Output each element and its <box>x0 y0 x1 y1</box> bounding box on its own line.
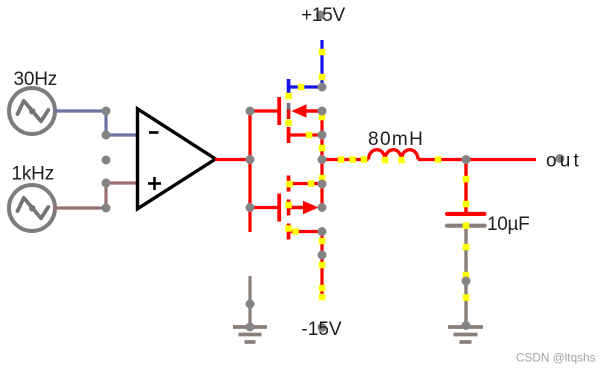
AC source V2 1kHz <box>9 185 55 231</box>
wire 1kHz source to op-amp noninverting input <box>55 183 138 208</box>
node dot (322,159.5) <box>318 155 327 164</box>
node dot out post <box>556 154 565 163</box>
node dot (466,159.5) <box>462 155 471 164</box>
node dot +15V post <box>316 11 325 20</box>
transistor Q2 n-channel MOSFET <box>277 176 322 240</box>
node dot (250,111) <box>246 107 255 116</box>
wire gate lead Q1 <box>250 109 278 112</box>
wire op-amp output <box>215 158 250 161</box>
svg-text:out: out <box>546 151 582 172</box>
svg-text:-15V: -15V <box>301 319 341 340</box>
node dot (466,281) <box>462 277 471 286</box>
wire junction to capacitor <box>464 160 467 213</box>
ground symbol left <box>233 327 267 342</box>
op-amp U1 <box>138 109 216 209</box>
inductor L1 80mH <box>369 150 419 160</box>
node dot (466,325.5) <box>462 321 471 330</box>
node dot (322,184) <box>318 180 327 189</box>
node dot lone (106,160) <box>102 156 111 165</box>
node dot (322,255) <box>318 251 327 260</box>
node dot (106,208) <box>102 204 111 213</box>
wire output bus <box>322 158 369 161</box>
node dot (250,304) <box>246 300 255 309</box>
svg-text:CSDN @ltqshs: CSDN @ltqshs <box>516 350 596 364</box>
wire right column body-source <box>320 111 323 208</box>
node dot (322,207.5) <box>318 203 327 212</box>
svg-text:80mH: 80mH <box>368 129 424 150</box>
wire inductor to junction <box>418 158 466 161</box>
wire Q2 source to -15V <box>320 232 323 301</box>
node dot (106,183) <box>102 179 111 188</box>
wire gate bus <box>248 111 251 232</box>
node dot (250,327) <box>246 323 255 332</box>
node dot (106,135) <box>102 131 111 140</box>
transistor Q1 p-channel MOSFET <box>277 79 322 143</box>
current dots yellow <box>285 49 469 301</box>
wire 30Hz source to op-amp inverting input <box>55 111 138 135</box>
node dot (322,87) <box>318 83 327 92</box>
node dot (322,231.5) <box>318 227 327 236</box>
AC source V1 30Hz <box>9 88 55 134</box>
capacitor C1 10uF <box>447 214 485 226</box>
svg-text:30Hz: 30Hz <box>14 69 58 90</box>
ground symbol right <box>448 327 483 342</box>
wire ground stub left <box>248 276 251 327</box>
wire +15V supply <box>320 40 323 87</box>
wire capacitor to ground <box>464 228 467 326</box>
svg-text:10µF: 10µF <box>487 214 530 235</box>
svg-text:+15V: +15V <box>301 5 345 26</box>
svg-text:1kHz: 1kHz <box>12 164 55 185</box>
node dot (106,111) <box>102 107 111 116</box>
node dot (250,159.5) <box>246 155 255 164</box>
node dot (322,111) <box>318 107 327 116</box>
wire junction to out <box>466 158 536 161</box>
node dot -15V post <box>318 323 327 332</box>
node dot (250,207.5) <box>246 203 255 212</box>
wire gate lead Q2 <box>250 206 278 209</box>
node dot (322,135) <box>318 131 327 140</box>
